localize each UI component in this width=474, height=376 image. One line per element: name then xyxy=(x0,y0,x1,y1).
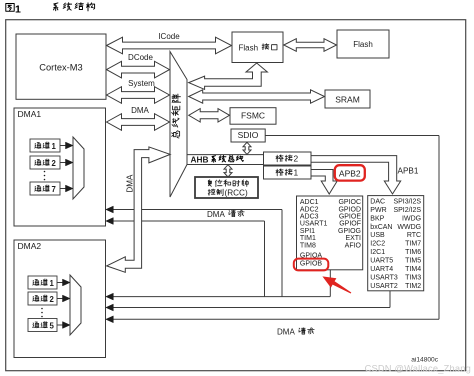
svg-text:SDIO: SDIO xyxy=(238,130,259,140)
svg-text:APB1: APB1 xyxy=(398,167,419,176)
svg-text:7: 7 xyxy=(52,185,56,194)
svg-text:USART3: USART3 xyxy=(370,274,398,281)
svg-text:SPI3/I2S: SPI3/I2S xyxy=(393,199,421,206)
svg-text:DMA: DMA xyxy=(131,106,149,115)
svg-text:2: 2 xyxy=(50,295,55,304)
svg-text:DMA: DMA xyxy=(207,210,225,219)
svg-text:GPIOB: GPIOB xyxy=(300,261,323,268)
svg-text:1: 1 xyxy=(50,279,55,288)
svg-text:TIM2: TIM2 xyxy=(405,283,421,290)
svg-text:AHB: AHB xyxy=(191,154,209,164)
svg-text:DMA: DMA xyxy=(277,328,295,337)
svg-text:USART2: USART2 xyxy=(370,283,398,290)
svg-text:SRAM: SRAM xyxy=(335,94,360,104)
svg-text:DCode: DCode xyxy=(128,53,153,62)
svg-text:1: 1 xyxy=(15,3,21,15)
svg-text:TIM4: TIM4 xyxy=(405,266,421,273)
svg-text:SPI1: SPI1 xyxy=(300,228,315,235)
svg-text:DMA: DMA xyxy=(126,174,135,192)
svg-text:DMA2: DMA2 xyxy=(18,241,42,251)
svg-text:1: 1 xyxy=(294,168,299,178)
svg-text:System: System xyxy=(128,79,155,88)
svg-text:CSDN @Wallace_Zhang: CSDN @Wallace_Zhang xyxy=(365,364,471,374)
svg-text:GPIOD: GPIOD xyxy=(338,206,361,213)
svg-text:WWDG: WWDG xyxy=(397,224,421,231)
svg-text:GPIOF: GPIOF xyxy=(339,221,361,228)
svg-text:TIM1: TIM1 xyxy=(300,235,316,242)
svg-text:DMA1: DMA1 xyxy=(18,109,42,119)
svg-text:TIM6: TIM6 xyxy=(405,249,421,256)
svg-text:PWR: PWR xyxy=(370,207,386,214)
svg-text:ICode: ICode xyxy=(158,32,180,41)
svg-text:2: 2 xyxy=(294,154,299,164)
svg-text:SPI2/I2S: SPI2/I2S xyxy=(393,207,421,214)
svg-text:ADC2: ADC2 xyxy=(300,206,319,213)
svg-text:GPIOG: GPIOG xyxy=(338,228,361,235)
svg-text:TIM5: TIM5 xyxy=(405,258,421,265)
svg-text:Cortex-M3: Cortex-M3 xyxy=(39,63,82,73)
svg-text:EXTI: EXTI xyxy=(345,235,361,242)
svg-text:Flash: Flash xyxy=(353,40,373,49)
svg-text:FSMC: FSMC xyxy=(241,111,265,121)
svg-text:BKP: BKP xyxy=(370,215,384,222)
svg-text:Flash: Flash xyxy=(239,43,259,52)
svg-text:ADC3: ADC3 xyxy=(300,214,319,221)
svg-text:ADC1: ADC1 xyxy=(300,199,319,206)
svg-text:UART4: UART4 xyxy=(370,266,393,273)
svg-text:(RCC): (RCC) xyxy=(225,189,248,198)
svg-text:2: 2 xyxy=(52,159,57,168)
svg-text:I2C1: I2C1 xyxy=(370,249,385,256)
svg-text:I2C2: I2C2 xyxy=(370,241,385,248)
svg-text:GPIOC: GPIOC xyxy=(338,199,361,206)
svg-text:USART1: USART1 xyxy=(300,221,328,228)
svg-text:DAC: DAC xyxy=(370,199,385,206)
svg-text:ai14800c: ai14800c xyxy=(411,356,438,363)
svg-text:IWDG: IWDG xyxy=(402,215,421,222)
svg-text:TIM8: TIM8 xyxy=(300,242,316,249)
svg-text:1: 1 xyxy=(52,142,57,151)
svg-text:TIM7: TIM7 xyxy=(405,241,421,248)
svg-text:5: 5 xyxy=(50,321,55,330)
svg-text:AFIO: AFIO xyxy=(345,242,362,249)
svg-text:UART5: UART5 xyxy=(370,258,393,265)
svg-text:TIM3: TIM3 xyxy=(405,274,421,281)
svg-text:APB2: APB2 xyxy=(339,168,361,178)
svg-text:USB: USB xyxy=(370,232,385,239)
svg-text:GPIOE: GPIOE xyxy=(339,214,362,221)
svg-text:bxCAN: bxCAN xyxy=(370,224,392,231)
svg-text:RTC: RTC xyxy=(407,232,421,239)
